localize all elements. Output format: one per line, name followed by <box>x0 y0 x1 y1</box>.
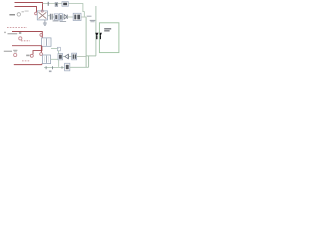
wire B5 out <box>77 56 87 58</box>
label tiny left 1 <box>4 32 6 33</box>
wire cap to B1 <box>52 16 54 18</box>
wire TR2 secondary <box>51 58 58 60</box>
label near lamp 2 <box>26 55 29 57</box>
label X1 <box>49 71 52 73</box>
fuse F1 <box>47 2 49 6</box>
capacitor C1 <box>50 14 52 20</box>
wire D1 to U2 <box>67 16 73 18</box>
wire red rail 2 <box>12 46 41 53</box>
label C1 <box>53 20 59 21</box>
node primary pin lower <box>35 12 38 15</box>
block B2 filter <box>59 14 62 21</box>
block AC box <box>62 2 68 7</box>
wire secondary out <box>48 15 51 17</box>
wire right bus vertical <box>85 17 87 67</box>
terminal arrows bidirectional <box>95 33 98 37</box>
node pin lamp 3 <box>40 53 43 56</box>
transformer TR0 box <box>37 11 47 20</box>
wire stub V0 <box>9 14 15 16</box>
label V2 <box>13 50 17 51</box>
wire TR2 return (red) <box>14 64 42 65</box>
wire B4 to D2 <box>63 56 65 58</box>
wire mcu feed vertical <box>95 6 97 56</box>
wire B4 down junction <box>58 60 60 67</box>
wire S2 down <box>58 51 60 54</box>
block sensor S2 <box>57 47 60 51</box>
wire TR1 secondary <box>51 48 58 50</box>
label VCC <box>87 16 92 17</box>
block B1 rectifier <box>54 14 58 20</box>
ground GND0 <box>43 20 47 26</box>
wire crystal net <box>44 67 65 69</box>
label mains text 1 (red) <box>7 26 27 28</box>
source V1 circle <box>19 37 22 40</box>
source V1 stub <box>8 33 18 35</box>
transformer TR2 box <box>42 55 50 64</box>
transformer TR1 core <box>46 39 48 46</box>
transformer TR1 box <box>42 38 51 46</box>
wire from AC box down to rail <box>68 4 84 17</box>
label mains text 2 (red) <box>21 40 30 42</box>
crystal X1 plates <box>46 66 62 69</box>
transformer TR0 windings X <box>39 12 47 18</box>
wire TR1 return (red) <box>33 46 42 54</box>
label V0 <box>22 11 24 12</box>
diode D2 <box>65 54 68 59</box>
wire top rail to AC box <box>43 3 63 5</box>
wire B2 to D1 <box>62 16 64 18</box>
wire U3 out <box>70 66 89 68</box>
wire AC line L (red) <box>15 3 43 11</box>
switch S1 <box>55 3 58 7</box>
transformer TR2 core <box>46 56 48 63</box>
wire AC line N (red) <box>15 7 37 13</box>
source V2 circle <box>14 53 17 56</box>
block U1 microcontroller <box>99 23 119 53</box>
label net PWR <box>90 20 96 21</box>
label U1 text <box>104 28 111 29</box>
block B4 amp <box>58 54 63 60</box>
node primary pin top <box>41 10 43 12</box>
diode D1 <box>64 15 67 20</box>
node lamp 2 <box>30 54 33 57</box>
block B5 comparator <box>72 53 77 60</box>
node pin lamp 1 <box>40 34 43 37</box>
wire red rail 1 <box>12 32 42 38</box>
block U2 regulator <box>73 13 81 20</box>
wire U2 out <box>81 16 86 18</box>
wire D2 to B5 <box>69 56 72 58</box>
source V2 stub <box>4 50 12 52</box>
source V0 circle <box>17 13 20 16</box>
wire row B riser <box>88 56 90 67</box>
label mains text 3 (red) <box>22 60 30 62</box>
block U3 driver <box>65 63 70 71</box>
label V1 <box>19 32 21 34</box>
wire bus bottom horizontal <box>86 55 96 57</box>
